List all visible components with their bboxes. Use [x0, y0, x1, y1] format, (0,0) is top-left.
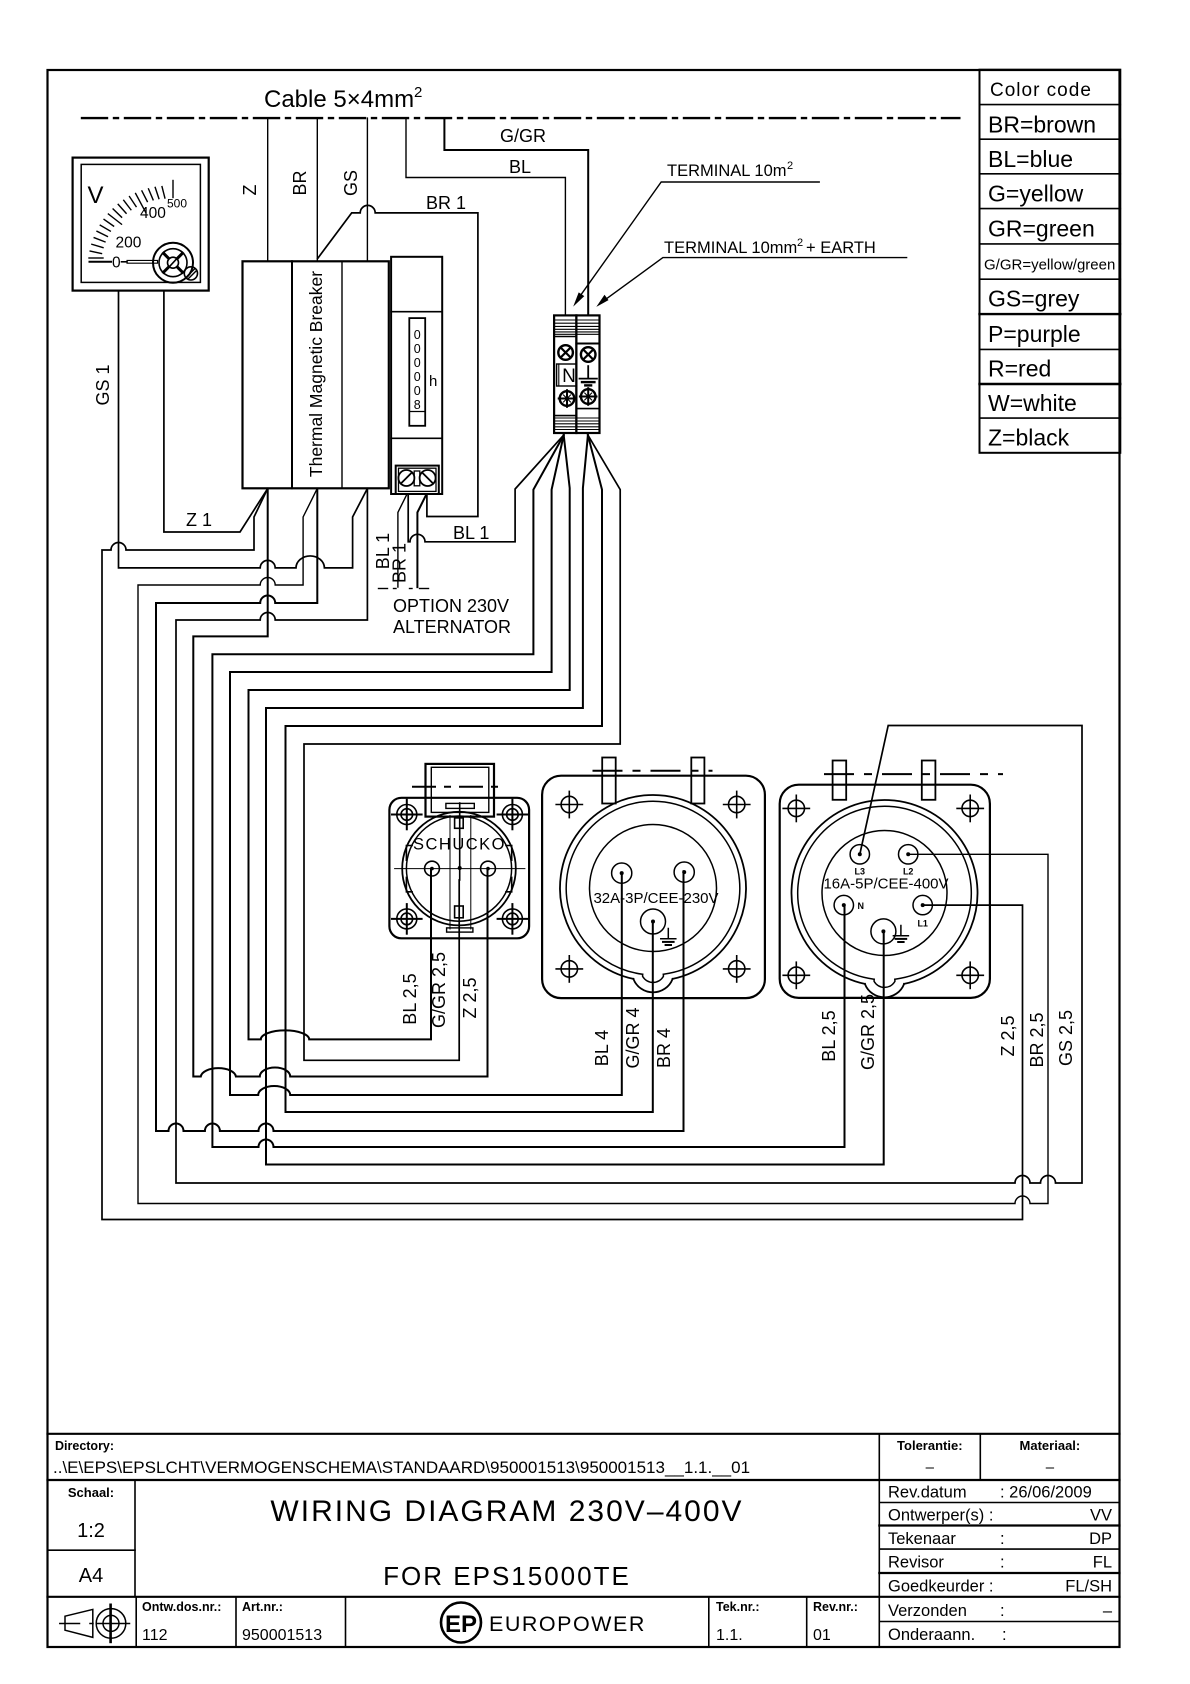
svg-text::: : — [1002, 1626, 1007, 1644]
svg-text:Ontwerper(s) :: Ontwerper(s) : — [888, 1507, 993, 1525]
CEE-400 rings — [791, 800, 977, 984]
wire BR (cable to breaker pole 2) — [316, 118, 318, 261]
svg-text:0: 0 — [414, 342, 421, 356]
voltmeter scale ticks — [89, 181, 173, 259]
color code table — [980, 70, 1121, 453]
SCHUCKO top/bottom slots — [446, 803, 474, 808]
svg-text:..\E\EPS\EPSLCHT\VERMOGENSCHEM: ..\E\EPS\EPSLCHT\VERMOGENSCHEMA\STANDAAR… — [53, 1458, 750, 1477]
svg-text:TERMINAL 10mm: TERMINAL 10mm — [664, 239, 797, 257]
leader TERMINAL 10m2 — [578, 182, 820, 300]
SCHUCKO socket — [389, 764, 529, 938]
svg-text:G/GR=yellow/green: G/GR=yellow/green — [984, 257, 1115, 274]
svg-text:N: N — [562, 366, 576, 387]
svg-text:Z 2,5: Z 2,5 — [998, 1015, 1018, 1056]
svg-text:P=purple: P=purple — [988, 321, 1081, 347]
svg-text:BL 4: BL 4 — [592, 1030, 612, 1066]
svg-text:Cable 5×4mm: Cable 5×4mm — [264, 86, 414, 113]
svg-text:: 26/06/2009: : 26/06/2009 — [1000, 1484, 1092, 1502]
svg-text:500: 500 — [167, 197, 187, 211]
CEE-400 pins L3 L2 N L1 earth — [850, 845, 869, 864]
wire B: BR net, pole2 to CEE-400 L2 pin — [138, 489, 1048, 1204]
svg-text:BL 2,5: BL 2,5 — [400, 973, 420, 1024]
svg-text:VV: VV — [1090, 1507, 1112, 1525]
svg-text:GS 1: GS 1 — [93, 364, 113, 405]
label Cable 5x4mm2 — [93, 84, 1076, 1070]
svg-text:Verzonden: Verzonden — [888, 1602, 967, 1620]
svg-text:BR 1: BR 1 — [390, 543, 410, 583]
svg-text:ALTERNATOR: ALTERNATOR — [393, 617, 511, 637]
svg-text:2: 2 — [414, 84, 422, 101]
EUROPOWER logo — [441, 1603, 646, 1643]
svg-text:Onderaann.: Onderaann. — [888, 1626, 975, 1644]
CEE-400 centreline dash-dot — [825, 773, 1002, 775]
svg-text:L1: L1 — [917, 919, 928, 929]
CEE-230 plate — [542, 776, 765, 998]
svg-text:GS 2,5: GS 2,5 — [1056, 1010, 1076, 1066]
CEE-400 mounting tabs — [833, 761, 847, 800]
voltmeter adjuster knob — [153, 243, 193, 283]
svg-text:32A-3P/CEE-230V: 32A-3P/CEE-230V — [593, 890, 718, 907]
CEE-230 socket (32A-3P/CEE-230V) — [542, 758, 765, 999]
wire GS1 (voltmeter left lead down, then GS link to pole 3 output; hops over P2a+P2b) — [119, 291, 368, 568]
terminal screw top-right (circle-X) — [581, 347, 596, 362]
SCHUCKO side clips — [406, 846, 412, 861]
svg-text:FL/SH: FL/SH — [1065, 1578, 1112, 1596]
svg-text:TERMINAL 10m: TERMINAL 10m — [667, 162, 787, 180]
CEE-230 corner screws — [556, 791, 750, 982]
svg-text:Tolerantie:: Tolerantie: — [897, 1438, 963, 1453]
CEE-400 earth mark — [893, 926, 908, 943]
wire Z1 (voltmeter right lead to breaker pole 1 output) — [164, 291, 268, 532]
svg-text:0: 0 — [414, 356, 421, 370]
svg-text:1.1.: 1.1. — [716, 1627, 743, 1644]
svg-text:BL=blue: BL=blue — [988, 146, 1073, 172]
svg-text:–: – — [1103, 1602, 1113, 1620]
svg-text:V: V — [88, 182, 104, 209]
svg-text:Color code: Color code — [990, 80, 1092, 101]
svg-text:112: 112 — [142, 1627, 168, 1644]
wire G: BL net, terminal N to CEE-230 left pin BL4 — [230, 435, 622, 1095]
svg-text:GS=grey: GS=grey — [988, 286, 1080, 312]
svg-text:h: h — [429, 373, 437, 390]
svg-text:G/GR: G/GR — [500, 126, 546, 146]
SCHUCKO mounting tab — [426, 764, 495, 817]
wire D: GS net, pole3 to CEE-400 L3 pin via top route — [176, 489, 1082, 1184]
svg-text:2: 2 — [787, 160, 793, 172]
svg-text:Rev.datum: Rev.datum — [888, 1484, 967, 1502]
svg-text:200: 200 — [116, 235, 142, 252]
terminal block (N + earth) — [554, 315, 599, 433]
svg-text:Ontw.dos.nr.:: Ontw.dos.nr.: — [142, 1600, 221, 1614]
wire A: Z net, pole1 to CEE-400 L1 pin (bottom bus) — [102, 489, 1023, 1220]
CEE-230 centreline dash-dot — [594, 770, 712, 772]
earth symbol in terminal — [580, 366, 597, 385]
wire BL1 (hour-meter left screw to terminal N, hop over BR1 stub) — [408, 435, 564, 542]
CEE-400 keyway notch — [865, 984, 904, 997]
svg-text:BL 2,5: BL 2,5 — [819, 1010, 839, 1061]
svg-text:Z 1: Z 1 — [186, 510, 212, 530]
svg-text:16A-5P/CEE-400V: 16A-5P/CEE-400V — [823, 876, 948, 893]
svg-text:+ EARTH: + EARTH — [806, 239, 876, 257]
wire H: BL net, terminal N to SCHUCKO left pin — [249, 435, 570, 1039]
svg-text:BR 2,5: BR 2,5 — [1027, 1012, 1047, 1067]
label N box — [557, 364, 577, 386]
wire F: BL net, terminal N to CEE-400 N pin — [212, 435, 844, 1147]
leader TERMINAL 10mm2 + EARTH — [603, 258, 907, 302]
wire I: G/GR net, terminal earth to CEE-400 earth pin — [266, 435, 884, 1164]
wire G/GR (cable to terminal earth) — [444, 118, 588, 315]
svg-text:G=yellow: G=yellow — [988, 181, 1084, 207]
svg-text:Z 2,5: Z 2,5 — [460, 977, 480, 1018]
wire BR1 option stub (dashed end) — [417, 494, 426, 587]
cable 5x4mm2 dash-dot line — [82, 117, 959, 119]
svg-text:950001513: 950001513 — [242, 1627, 322, 1644]
svg-text:BR: BR — [290, 170, 310, 195]
CEE-400 socket (16A-5P/CEE-400V) — [780, 761, 1002, 998]
svg-text:WIRING DIAGRAM 230V–400V: WIRING DIAGRAM 230V–400V — [270, 1495, 743, 1528]
svg-text:EP: EP — [445, 1611, 477, 1638]
wire C: BR net, pole2 to CEE-230 right pin BR4 — [156, 489, 684, 1132]
CEE-230 mounting tabs — [602, 758, 616, 804]
title block bottom row cells — [135, 1597, 137, 1647]
hour meter digit window — [409, 318, 425, 426]
svg-text::: : — [1000, 1530, 1005, 1548]
svg-text:DP: DP — [1089, 1530, 1112, 1548]
svg-text:N: N — [858, 901, 865, 911]
title block right rows — [879, 1502, 1119, 1504]
wire GS (cable to breaker pole 3) — [366, 118, 368, 261]
svg-text::: : — [1000, 1602, 1005, 1620]
SCHUCKO corner screws — [392, 800, 527, 934]
SCHUCKO pins — [425, 861, 440, 876]
CEE-400 plate — [780, 785, 990, 998]
svg-text:–: – — [926, 1459, 935, 1476]
terminal hatch lines top — [554, 320, 599, 334]
svg-text:01: 01 — [813, 1627, 831, 1644]
SCHUCKO centreline dash-dot — [413, 786, 507, 788]
svg-text:Schaal:: Schaal: — [68, 1485, 114, 1500]
svg-text:BL: BL — [509, 157, 531, 177]
svg-text:GS: GS — [341, 170, 361, 196]
svg-text:G/GR 2,5: G/GR 2,5 — [858, 994, 878, 1070]
hour meter terminal screws — [396, 466, 439, 494]
svg-text:Z=black: Z=black — [988, 425, 1070, 451]
svg-text:0: 0 — [414, 328, 421, 342]
svg-text:G/GR 2,5: G/GR 2,5 — [429, 952, 449, 1028]
wire J: G/GR net, terminal earth to CEE-230 bottom pin — [286, 435, 653, 1112]
SCHUCKO plate — [389, 798, 529, 939]
wire BL (cable to terminal N) — [406, 118, 565, 315]
svg-text:0: 0 — [414, 370, 421, 384]
terminal screw bottom-left (circle-+) — [560, 391, 575, 406]
svg-text:SCHUCKO: SCHUCKO — [413, 836, 506, 854]
first-angle projection symbol — [60, 1605, 130, 1642]
svg-text:BR 4: BR 4 — [654, 1028, 674, 1068]
svg-text:A4: A4 — [79, 1565, 103, 1587]
CEE-400 corner screws — [783, 795, 983, 988]
wire E: Z net, pole1 straight down to SCHUCKO right pin — [193, 489, 487, 1077]
terminal screw top-left (circle-X) — [558, 345, 573, 360]
svg-text:BL 1: BL 1 — [453, 523, 489, 543]
svg-text:8: 8 — [414, 398, 421, 412]
SCHUCKO face circles — [402, 812, 516, 926]
svg-text:0: 0 — [414, 384, 421, 398]
terminal hatch lines bottom — [554, 418, 599, 427]
svg-text:EUROPOWER: EUROPOWER — [489, 1612, 646, 1636]
svg-text:Directory:: Directory: — [55, 1439, 114, 1453]
svg-text:400: 400 — [140, 205, 166, 222]
svg-text:W=white: W=white — [988, 390, 1077, 416]
svg-text:BR 1: BR 1 — [426, 193, 466, 213]
svg-text:Materiaal:: Materiaal: — [1020, 1438, 1081, 1453]
svg-text:Rev.nr.:: Rev.nr.: — [813, 1600, 858, 1614]
voltmeter V — [73, 158, 209, 291]
title block — [48, 1434, 1120, 1647]
CEE-230 pins — [612, 863, 632, 883]
svg-text:OPTION 230V: OPTION 230V — [393, 596, 509, 616]
svg-text:–: – — [1046, 1459, 1055, 1476]
hour meter — [391, 257, 442, 494]
svg-text:1:2: 1:2 — [77, 1520, 105, 1542]
svg-text:GR=green: GR=green — [988, 216, 1095, 242]
SCHUCKO thin centrelines — [395, 868, 525, 870]
breaker (Thermal Magnetic Breaker) — [243, 261, 389, 488]
wire Z (cable to breaker pole 1) — [267, 118, 269, 261]
svg-text:Thermal Magnetic Breaker: Thermal Magnetic Breaker — [306, 271, 326, 477]
svg-text:Z: Z — [240, 185, 260, 196]
svg-text:Art.nr.:: Art.nr.: — [242, 1600, 283, 1614]
svg-text:R=red: R=red — [988, 356, 1051, 382]
svg-text:Tek.nr.:: Tek.nr.: — [716, 1600, 760, 1614]
svg-text:0: 0 — [112, 255, 121, 272]
wire BR1 (tap from BR to hour-meter right screw, with hop over GS) — [318, 205, 478, 516]
wire BL1 option stub (dashed end) — [398, 494, 407, 587]
voltmeter needle — [90, 261, 112, 263]
svg-text:G/GR 4: G/GR 4 — [623, 1007, 643, 1068]
CEE-230 earth mark — [661, 929, 676, 946]
svg-text:FL: FL — [1093, 1554, 1112, 1572]
svg-text:2: 2 — [797, 237, 803, 249]
svg-text:Tekenaar: Tekenaar — [888, 1530, 956, 1548]
CEE-230 rings — [560, 795, 746, 979]
svg-text:Goedkeurder :: Goedkeurder : — [888, 1578, 993, 1596]
terminal screw bottom-right (circle-+) — [581, 389, 596, 404]
svg-text:Revisor: Revisor — [888, 1554, 944, 1572]
svg-text::: : — [1000, 1554, 1005, 1572]
svg-text:BR=brown: BR=brown — [988, 112, 1096, 138]
svg-text:FOR EPS15000TE: FOR EPS15000TE — [383, 1561, 631, 1591]
wire K: G/GR net, terminal earth to SCHUCKO centre contact — [304, 435, 620, 1060]
CEE-230 keyway notch — [633, 979, 672, 992]
